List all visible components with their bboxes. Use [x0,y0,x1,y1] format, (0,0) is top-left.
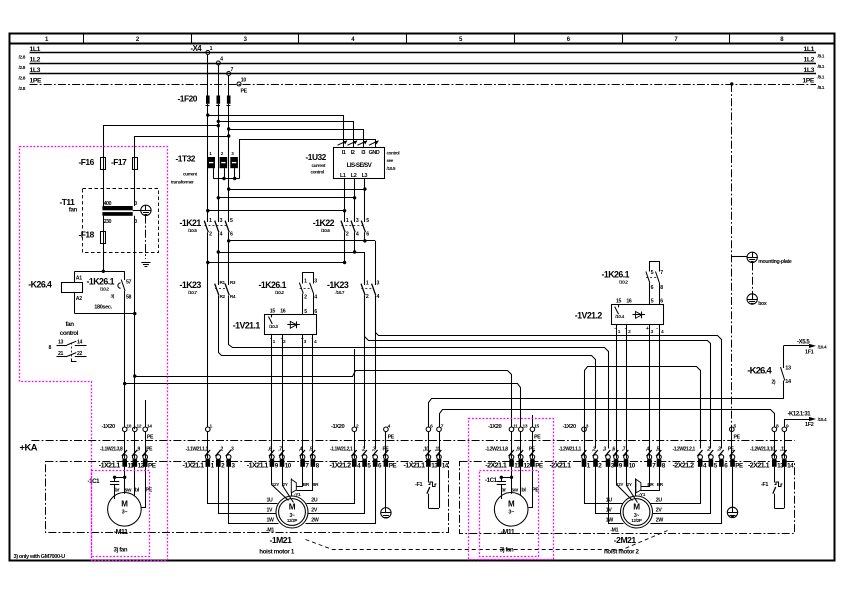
svg-text:M: M [289,502,296,511]
svg-text:12: 12 [137,423,142,429]
wire -1V21.2:3 to -2X21.1:7 [649,325,651,459]
wires to fan motor1 [114,467,152,508]
svg-text:R2: R2 [220,294,226,299]
wire run fan to 2X21.1:12 [125,384,521,428]
svg-text:-M11: -M11 [114,529,128,536]
svg-text:/8.1: /8.1 [818,75,825,81]
svg-text:14: 14 [147,423,152,429]
earth point at -T11 [133,205,151,259]
cable cores motor1 cable -1.1W21.2 [330,447,389,457]
svg-text:10: 10 [629,462,636,469]
svg-text:12: 12 [524,462,531,469]
svg-text:-1X20: -1X20 [331,424,344,430]
control unit -1U32 LIS-SE/SV [306,148,400,180]
svg-text:-1.1W21.1,1: -1.1W21.1,1 [186,447,209,453]
cable cores fan1 cable -1.1W21.3 [100,447,153,457]
svg-text:-1.2W21.1,8: -1.2W21.1,8 [485,447,508,453]
svg-text:/10.2: /10.2 [275,290,284,295]
svg-text:-M1: -M1 [610,527,618,533]
wire fan PE down [145,400,147,427]
svg-text:-M11: -M11 [501,529,515,536]
svg-text:-2X21.1: -2X21.1 [748,461,770,469]
fan control contacts legend [49,321,87,362]
svg-text:-F16: -F16 [79,157,95,167]
wire -1V21.1:1 to -1X21.1:9 [271,335,273,459]
svg-text:control: control [311,169,324,174]
svg-text:PE: PE [534,434,541,440]
svg-text:/2.8: /2.8 [19,86,26,92]
svg-text:-1C1: -1C1 [88,478,101,485]
svg-text:-1K22: -1K22 [313,218,335,228]
wires 2X21.1 to motor2 left [585,467,624,524]
svg-text:/10.6: /10.6 [321,228,330,233]
svg-text:2: 2 [346,232,349,238]
svg-text:2U: 2U [311,498,318,504]
contact -K26.4 right [747,346,792,386]
svg-text:-1V21.1: -1V21.1 [233,321,261,331]
svg-text:14: 14 [442,462,449,469]
wire -1U32 L3 [364,179,366,223]
terminal strip cont. 7.. [647,455,666,470]
reference -K12.1:31 1F2 [784,412,827,428]
svg-text:1: 1 [304,279,307,285]
svg-text:A1: A1 [76,276,82,282]
wire join lower phase1 [208,262,345,264]
earth box [747,263,767,308]
terminal strip -1X21.1 9.. [247,455,292,470]
svg-text:-X5.5: -X5.5 [797,339,810,345]
svg-text:L1: L1 [340,173,346,179]
option boundary left (magenta) [20,147,168,561]
svg-text:1PE: 1PE [802,77,815,84]
svg-text:1W: 1W [267,518,275,524]
cable cores motor2 cable -1.2W21.2 [673,447,735,457]
terminal circles 6,7 [426,423,444,431]
svg-text:fan: fan [66,321,75,328]
terminal strip -2X21.1 11.. [485,455,543,470]
svg-text:-2X21.1: -2X21.1 [550,461,572,469]
svg-text:2W: 2W [311,518,319,524]
wire run K23R to 2X21.2:6 [376,296,722,449]
svg-text:1: 1 [346,218,349,224]
svg-text:1L3: 1L3 [803,67,814,74]
terminal strip -1X21.1 13.. [404,455,449,470]
svg-text:1L2: 1L2 [30,56,41,63]
wires circle-to-block [125,431,785,458]
svg-text:-1X20: -1X20 [102,424,115,430]
terminal circle 1 [206,423,213,431]
svg-text:-2X21.1: -2X21.1 [485,461,507,469]
svg-text:1V: 1V [606,508,613,514]
svg-text:10: 10 [285,462,292,469]
wire join phase1 to L1 [208,210,345,212]
svg-text:control: control [60,330,79,337]
svg-text:1V: 1V [267,508,274,514]
wire phase 1 from X4:1 [207,55,209,96]
wire -1V21.2:4 to -2X21.1:8 [659,325,661,459]
svg-text:+KA: +KA [20,441,38,452]
motor -M11 fan2 [494,493,528,536]
svg-text:-1T32: -1T32 [176,154,196,164]
wire -1V21.1:3 to -1X21.1:7 [302,335,304,459]
wire run to 2X21.1:1 and 2X21.2:4 [585,367,701,449]
option box fan1 inner (magenta) [92,471,150,557]
wires motor1 right to 1X21.2 [306,467,376,524]
rail 1L3 [19,67,825,81]
terminal strip -1X21.1 1.. [183,455,236,470]
svg-text:/8.1: /8.1 [818,85,825,91]
svg-text:-1K23: -1K23 [327,280,349,290]
svg-text:1F1: 1F1 [805,350,814,356]
wire run K23L to 2X21.1:2 [219,296,596,449]
svg-text:/10.5: /10.5 [188,228,197,233]
svg-text:14: 14 [77,340,83,346]
wire -1X20:2 feed [354,349,356,427]
wire -1V21.2:1 to -2X21.1:9 [616,325,618,459]
svg-text:4: 4 [220,56,223,62]
fuse -F17 [111,157,138,170]
wire -1U32 L1 [344,179,346,223]
svg-text:I3: I3 [361,150,365,156]
rail 1PE [19,77,825,91]
svg-text:PE: PE [147,434,154,440]
cable cores fan2 cable -1.2W21.1 [485,447,535,457]
svg-text:mounting-plate: mounting-plate [758,259,792,265]
enclosure box left (dash-dot) [46,462,449,533]
wire -1V21.2:2 to -2X21.1:10 [626,325,628,459]
svg-text:57: 57 [126,280,132,286]
terminal strip -1X21.1 11.. [99,455,156,470]
svg-text:-1X21.1: -1X21.1 [183,461,205,469]
svg-text:3~: 3~ [508,510,514,516]
svg-text:M: M [633,502,640,511]
svg-text:-F1: -F1 [761,482,768,488]
svg-text:12/2P: 12/2P [631,518,642,523]
svg-text:3: 3 [220,218,223,224]
wire 1PE drop (dash-dot) [731,84,733,441]
wire CT secondary common [213,168,239,180]
earth symbol 2X21.2 PE [727,467,737,518]
svg-text:-1X21.1: -1X21.1 [99,461,121,469]
svg-text:-1.2W21.3,10: -1.2W21.3,10 [750,447,775,453]
svg-text:BR: BR [657,482,664,487]
wire join phase3 to L3 [229,189,365,191]
fuse -F16 [79,157,106,170]
wire fan2 PE stub [532,415,534,427]
svg-text:6: 6 [314,309,317,315]
svg-text:R1: R1 [220,280,226,285]
svg-text:PE: PE [241,89,248,95]
cable cores motor1 brake cores [268,447,315,457]
svg-text:2: 2 [304,294,307,300]
wire join phase2 to L2 [218,197,354,199]
rail 1L2 [19,56,825,70]
svg-text:-1C1: -1C1 [485,477,498,484]
svg-text:14: 14 [787,462,794,469]
terminal -1X20 fan2 (11,13,15) [488,423,541,440]
current transformer -1T32 [171,151,238,184]
svg-text:BR: BR [312,482,319,487]
wire -1V21.1:4 to -1X21.1:8 [312,335,314,459]
wire phase 2 from X4:4 [218,65,220,96]
wire run K23R to 2X21.2:5 [365,296,711,449]
svg-text:-1K26.1: -1K26.1 [259,280,287,290]
svg-text:hoist motor 1: hoist motor 1 [259,549,295,556]
contactor contacts -1K21 [180,218,234,238]
svg-text:16: 16 [626,298,632,304]
fuse -F18 [79,216,106,271]
wire phase 1 below fuse [207,104,209,222]
motor -M11 fan1 [108,493,142,536]
svg-text:1L2: 1L2 [803,56,814,63]
svg-text:58: 58 [126,294,132,300]
svg-text:box: box [758,301,767,307]
wire phase1 lower [207,232,209,427]
svg-text:,10: ,10 [423,447,429,453]
cable cores motor2 cable -1.2W21.1 [559,447,611,457]
svg-text:-1K21: -1K21 [180,218,202,228]
svg-text:13: 13 [785,366,791,372]
svg-text:12Y: 12Y [272,482,281,487]
svg-text:3: 3 [356,218,359,224]
wires to fan motor2 [501,467,539,508]
svg-text:-K26.4: -K26.4 [747,364,772,375]
svg-text:I2: I2 [351,150,355,156]
earth mounting-plate [732,252,792,265]
reference -X5.5 1F1 [784,339,828,355]
terminal strip -2X21.1 13.. [748,455,794,470]
terminal -1X20:2 [331,423,359,431]
contactor contacts -1K26.1 middle [259,273,318,315]
svg-text:-1K26.1: -1K26.1 [602,269,630,279]
wire -1K23 right pole3 feed [375,241,377,281]
svg-text:-1X20: -1X20 [488,424,501,430]
wire phase 3 from X4:7 [228,76,230,96]
terminal circle 5 PE [730,423,741,440]
svg-text:I1: I1 [342,150,346,156]
svg-text:/2.8: /2.8 [19,75,26,81]
svg-text:transformer: transformer [171,180,194,185]
svg-text:/10.3: /10.3 [269,324,278,329]
svg-text:+: + [646,326,649,332]
cable cores motor1 cores 10,11 [423,447,441,457]
svg-text:-F1: -F1 [415,482,422,488]
svg-text:L3: L3 [362,173,368,179]
svg-text:-1K23: -1K23 [180,280,202,290]
terminal strip -2X21.2 4.. [673,455,743,470]
mechanical coupling dashed line [306,531,668,550]
wire -1V21.1:2 to -1X21.1:10 [282,335,284,459]
terminal circle 4 PE [384,423,395,448]
svg-text:-1.1W21.3,8: -1.1W21.3,8 [100,447,123,453]
terminal strip -2X21.1 1.. [550,455,615,470]
svg-text:-T11: -T11 [60,197,76,207]
svg-text:13: 13 [58,340,64,346]
capacitor -1C1 fan1 [88,476,127,499]
svg-text:-1U32: -1U32 [306,152,327,162]
svg-text:/10.2: /10.2 [619,279,628,284]
wire tap I1 to -1U32 [208,116,344,148]
svg-text:2U: 2U [656,498,663,504]
svg-text:-1M21: -1M21 [270,535,293,545]
fuse -1F20 (3x) [178,94,231,106]
svg-text:BR: BR [647,482,654,487]
svg-text:180sec.: 180sec. [94,305,112,311]
cable cores motor1 cable -1.1W21.1 [186,447,234,457]
capacitor -1C1 fan2 [485,476,513,499]
svg-text:/10.4: /10.4 [615,314,624,319]
svg-text:/2.8: /2.8 [19,65,26,71]
svg-text:current: current [312,163,326,168]
svg-text:-1.1W21.2,1: -1.1W21.2,1 [330,447,353,453]
svg-text:/10.2: /10.2 [100,287,109,292]
brake rectifier -1V21.2 [575,298,664,335]
svg-text:3: 3 [314,279,317,285]
svg-text:16: 16 [280,308,286,314]
enclosure box right (dash-dot) [460,462,795,534]
svg-text:1W: 1W [606,518,614,524]
svg-text:3) only with GM7000-U: 3) only with GM7000-U [14,554,66,560]
svg-text:1L1: 1L1 [30,46,41,53]
svg-text:current: current [183,172,197,177]
contactor contacts -1K23 left [180,280,236,299]
svg-text:PE: PE [388,434,395,440]
svg-text:-X4: -X4 [191,44,203,53]
svg-text:-F18: -F18 [79,230,95,240]
svg-text:12Y: 12Y [616,482,625,487]
svg-text:LIS-SE/SV: LIS-SE/SV [347,162,373,169]
contactor contacts -1K23 right [327,280,380,300]
wire fan phase A down [124,314,126,428]
motor -1M21 hoist motor 1 [259,496,319,556]
svg-text:3) fan: 3) fan [114,548,128,554]
svg-text:R4: R4 [230,294,236,299]
svg-text:6: 6 [660,298,663,304]
svg-text:-K26.4: -K26.4 [28,280,52,290]
wire 1K22:4 lower [354,232,356,252]
svg-text:-M1: -M1 [266,527,274,533]
svg-text:4: 4 [220,232,223,238]
svg-text:-1V21.2: -1V21.2 [575,311,603,321]
motor -2M21 hoist motor 2 [604,496,663,556]
svg-text:-1X21.1: -1X21.1 [404,461,426,469]
wire GND to -1U32 [240,140,376,179]
wire tap to -F16 [104,126,219,158]
wire run fan to 2X21.1:11 [135,371,512,428]
svg-text:4: 4 [356,232,359,238]
transformer -T11 [60,169,159,253]
svg-text:2W: 2W [656,518,664,524]
svg-text:4: 4 [314,294,317,300]
wire run K23L to 2X21.1:3 [229,296,609,449]
wire 1K22:2 lower [344,232,346,262]
overload contact -F1 right [761,467,785,509]
wire tap I3 to -1U32 [229,130,364,148]
svg-text:-1.2W21.1,1: -1.2W21.1,1 [559,447,582,453]
cable cores motor2 brake cores [612,447,662,457]
svg-text:1U: 1U [606,498,613,504]
svg-text:2V: 2V [311,508,318,514]
terminal strip -X4 [191,44,248,95]
svg-text:PE: PE [734,434,741,440]
svg-text:15: 15 [534,423,539,429]
wire phase 3 below fuse [228,104,230,222]
svg-text:/10.7: /10.7 [188,290,197,295]
svg-text:PE: PE [145,487,152,493]
svg-text:1L1: 1L1 [803,46,814,53]
svg-text:13: 13 [523,423,528,429]
terminal -1X20 fan1 (10,12,14) [102,423,155,440]
cable cores motor2 cores 10,11 [750,447,787,457]
svg-text:15: 15 [616,298,622,304]
brake rectifier -1V21.1 [233,308,317,344]
svg-text:1U: 1U [267,498,274,504]
svg-text:-1X21.2: -1X21.2 [330,461,352,469]
svg-text:L2: L2 [351,173,357,179]
svg-text:1PE: 1PE [30,77,43,84]
terminal strip cont. 7.. [300,455,319,470]
svg-text:1: 1 [366,281,369,287]
svg-text:/10.5: /10.5 [387,166,396,171]
svg-text:12/2P: 12/2P [287,518,298,523]
svg-text:A2: A2 [76,296,82,302]
svg-text:-K12.1:31: -K12.1:31 [788,412,812,418]
svg-text:-1.2W21.2,1: -1.2W21.2,1 [673,447,696,453]
svg-text:1L3: 1L3 [30,67,41,74]
terminal circles 8,9 [772,423,789,431]
wire run -K26.4 to 1X21.1:13 [429,381,784,428]
wires motor2 right to 2X21.2 [651,467,722,524]
brake wires motor1 [272,467,320,503]
svg-text:-F17: -F17 [111,157,127,167]
terminal -1X20:3 [563,423,589,431]
svg-text:-2M21: -2M21 [614,535,637,545]
svg-text:3) fan: 3) fan [500,548,514,554]
svg-text:/2.8: /2.8 [19,54,26,60]
svg-text:-1X20: -1X20 [563,424,576,430]
svg-text:2V: 2V [656,508,663,514]
svg-text:11: 11 [513,423,518,429]
svg-text:PE: PE [735,462,743,469]
contactor contacts -1K22 [313,218,369,238]
svg-text:-2X21.2: -2X21.2 [673,461,695,469]
wire F17 phase down [134,216,136,429]
svg-text:M: M [508,500,515,509]
svg-text:5: 5 [651,270,654,276]
svg-text:BR: BR [303,482,310,487]
wire tap to -F17 [135,137,229,158]
svg-text:10: 10 [241,77,247,83]
rail +KA [20,441,795,453]
svg-text:-1F20: -1F20 [178,94,198,104]
option box fan2 outer (magenta) [469,419,554,560]
svg-text:10: 10 [126,423,131,429]
terminal strip -1X21.2 4.. [330,455,397,470]
wire -1X21.2:6 feed [375,295,377,449]
svg-text:400: 400 [104,201,112,207]
svg-text:15: 15 [270,308,276,314]
svg-text:R3: R3 [230,280,236,285]
svg-text:1: 1 [209,218,212,224]
wire -1U32 L2 [354,179,356,223]
wires 1X21.1 to motor1 left [208,467,279,524]
svg-text:/10.4: /10.4 [818,417,827,422]
wire run 1X21.1:14 to 2X21.1:13 [440,410,775,428]
svg-text:-1K26.1: -1K26.1 [87,277,115,287]
svg-text:-1X21.1: -1X21.1 [247,461,269,469]
svg-text:fan: fan [69,207,78,214]
svg-text:PE: PE [148,462,156,469]
